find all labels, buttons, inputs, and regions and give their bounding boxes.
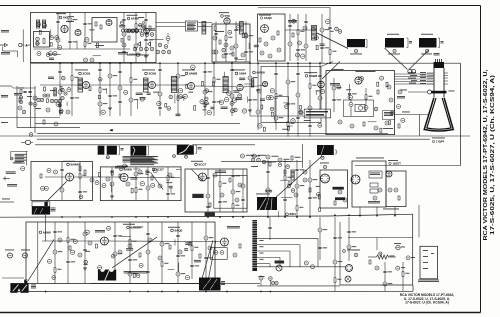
svg-text:3CB6: 3CB6 bbox=[83, 72, 91, 76]
capacitor C164 bbox=[208, 246, 212, 250]
resistor R142 bbox=[309, 188, 311, 192]
wire: antenna lead bbox=[28, 44, 31, 46]
label: value text a208 bbox=[140, 97, 146, 99]
capacitor C162 bbox=[188, 242, 192, 246]
svg-text:1B3GT: 1B3GT bbox=[393, 162, 402, 166]
wire: IF drop 3 bbox=[98, 63, 107, 116]
capacitor C106 bbox=[168, 173, 172, 177]
component: vert output transformer photo bbox=[32, 202, 50, 215]
component: interstage transformer loops B bbox=[132, 29, 142, 32]
tube V2 mixer bbox=[75, 30, 81, 36]
wire: pow drop 2 bbox=[402, 262, 409, 292]
capacitor iC955 bbox=[292, 19, 296, 23]
wire: sync drop 3 bbox=[110, 167, 114, 200]
label: 1st pix IF stage bbox=[75, 70, 91, 76]
wire: IF drop 16 bbox=[296, 63, 300, 136]
svg-text:6AW8: 6AW8 bbox=[189, 72, 198, 76]
capacitor C62s bbox=[61, 96, 64, 99]
capacitor C176 bbox=[269, 277, 273, 286]
label: value text a212 bbox=[210, 107, 214, 109]
box: video amp sub-box bbox=[275, 97, 289, 123]
wire: flyback lead 1 bbox=[202, 240, 213, 278]
box: horiz output cage bbox=[352, 161, 386, 207]
label: value text c409 bbox=[119, 25, 125, 27]
wire: kine grid long wire bbox=[395, 112, 428, 115]
resistor R151 bbox=[69, 246, 71, 250]
capacitor bC301 bbox=[270, 89, 274, 93]
capacitor C63b bbox=[10, 157, 13, 160]
label: note paragraph left bbox=[14, 154, 26, 164]
label: SYNC SEP stage bbox=[63, 161, 82, 167]
capacitor cC400 bbox=[58, 46, 62, 50]
capacitor C74 bbox=[389, 98, 393, 102]
wire: sync path bbox=[45, 176, 180, 179]
label: block2 bracket bbox=[118, 146, 123, 155]
component: PCB photo block 3 bbox=[131, 146, 147, 156]
component: height control bbox=[5, 250, 14, 259]
component: deflection yoke photo block L1 bbox=[385, 38, 404, 48]
resistor fR709 bbox=[212, 82, 214, 86]
label: value text i951 bbox=[320, 44, 325, 46]
label: value text e616 bbox=[126, 248, 133, 250]
label: hor section labels bbox=[251, 156, 291, 167]
capacitor C62c bbox=[19, 96, 22, 99]
box: HV rectifier cage bbox=[386, 171, 406, 207]
tube V19 AGC keyer bbox=[355, 77, 362, 84]
resistor R27 bbox=[219, 40, 221, 44]
component: tuner coil 2 bbox=[43, 20, 46, 28]
capacitor fC705 bbox=[191, 65, 195, 69]
component: IF coil L5 bbox=[171, 77, 177, 93]
component: horiz hold transformer bbox=[355, 105, 365, 112]
wire: tuner internal bus bbox=[34, 48, 131, 50]
wire: segment c420 bbox=[129, 53, 141, 55]
capacitor aC231 bbox=[157, 101, 161, 105]
label: value text b308 bbox=[316, 89, 320, 92]
label: block4 designator bbox=[173, 155, 188, 159]
label: agc labels bbox=[14, 93, 22, 95]
label: T2 designator bbox=[350, 49, 362, 54]
wire: lower bus 2 bbox=[10, 290, 413, 292]
resistor fR710 bbox=[186, 84, 188, 88]
wire: connector lead 3 bbox=[257, 251, 290, 267]
wire: mid right drop 2 bbox=[283, 160, 291, 217]
resistor dR515 bbox=[131, 188, 133, 193]
resistor R33 bbox=[232, 52, 234, 56]
capacitor C48 bbox=[296, 53, 300, 57]
component: speaker photo block bbox=[10, 283, 28, 293]
capacitor jC1004 bbox=[348, 95, 352, 99]
svg-text:6CG7: 6CG7 bbox=[199, 163, 207, 167]
resistor bR319 bbox=[287, 127, 289, 131]
resistor R160 bbox=[169, 245, 171, 249]
wire: tuner left vline bbox=[30, 63, 32, 128]
wire: vert drop 7 bbox=[160, 222, 169, 284]
label: value text e612 bbox=[184, 248, 188, 250]
capacitor bC320 bbox=[320, 89, 324, 93]
label: 2nd pix IF stage bbox=[142, 70, 157, 76]
tube V9 1st pix IF bbox=[83, 82, 90, 89]
component: standalone cap bbox=[166, 33, 170, 44]
wire: sub vline x377 bbox=[376, 238, 378, 251]
wire: segment a222 bbox=[137, 99, 139, 109]
capacitor gC811 bbox=[124, 90, 128, 94]
component: delay line bbox=[251, 79, 254, 87]
capacitor bC312 bbox=[299, 110, 303, 114]
capacitor C180 bbox=[406, 256, 415, 260]
text: right margin title line 2 bbox=[490, 75, 496, 235]
tube V5 sound output 6AQ5 bbox=[261, 25, 269, 33]
wire: B+ feed above sound box bbox=[258, 7, 331, 9]
resistor R5 bbox=[95, 22, 97, 26]
resistor iR957 bbox=[316, 45, 318, 50]
capacitor dC509 bbox=[123, 164, 127, 168]
capacitor aC224 bbox=[169, 95, 173, 99]
wire: sound drop 4 bbox=[244, 22, 253, 63]
wire: vert signal path bbox=[42, 240, 220, 243]
label: horiz out trans caption bbox=[221, 281, 225, 285]
label: block5 designator bbox=[321, 156, 324, 159]
wire: segment e615 bbox=[168, 269, 175, 271]
label: horiz drive text bbox=[205, 212, 215, 216]
capacitor C12 bbox=[84, 58, 88, 62]
label: symbols note paragraph bbox=[123, 156, 157, 162]
capacitor cC423 bbox=[37, 23, 41, 27]
wire: B+ horiz to HV cage bbox=[355, 165, 461, 167]
wire: hv drop 2 bbox=[376, 207, 378, 218]
capacitor gC804 bbox=[67, 88, 71, 92]
capacitor C190 bbox=[266, 155, 279, 159]
capacitor jC1002 bbox=[380, 76, 384, 80]
wire: vert drop 10 bbox=[204, 222, 213, 279]
capacitor C62m bbox=[46, 94, 49, 97]
component: CRT V8 picture tube flare bbox=[424, 98, 453, 131]
label: left margin text a bbox=[1, 30, 9, 32]
wire: segment h904 bbox=[248, 43, 250, 49]
capacitor C62r bbox=[64, 92, 67, 95]
label: value text e607 bbox=[185, 242, 192, 244]
component: output transformer T1 bbox=[312, 26, 317, 41]
component: fuse F3 bbox=[370, 189, 378, 193]
wire: stub to tuner 2 bbox=[0, 117, 60, 119]
label: speaker caption bbox=[31, 285, 36, 289]
wire: power top wire bbox=[348, 237, 413, 239]
wire: IF mid hline bbox=[35, 123, 240, 125]
capacitor C47 bbox=[298, 41, 302, 45]
node: arrow symbol left bbox=[3, 177, 10, 181]
wire: segment d513 bbox=[133, 168, 140, 170]
capacitor aC213 bbox=[204, 101, 208, 105]
capacitor C156 bbox=[128, 244, 132, 248]
label: value text c411 bbox=[68, 15, 74, 18]
wire: sound out drop 1 bbox=[288, 14, 292, 61]
label: VERT OUT stage bbox=[168, 227, 183, 233]
capacitor C29 bbox=[230, 46, 234, 50]
capacitor hC907 bbox=[236, 26, 240, 30]
capacitor cC408 bbox=[120, 21, 124, 25]
capacitor C72 bbox=[387, 85, 391, 89]
wire: speaker top wire bbox=[2, 277, 24, 279]
label: value text d501 bbox=[130, 177, 137, 179]
wire: video box corner diag bbox=[321, 62, 333, 67]
wire: segment h901 bbox=[237, 58, 245, 60]
label: value text c424 bbox=[148, 28, 155, 30]
resistor kR1053 bbox=[318, 195, 320, 199]
label: value text i953 bbox=[330, 30, 334, 33]
wire: lower bus 1 bbox=[90, 283, 260, 285]
wire: tuner drop 2 bbox=[68, 13, 77, 50]
label: value text a221 bbox=[136, 93, 143, 95]
capacitor aC225 bbox=[242, 109, 246, 113]
capacitor C80 bbox=[398, 90, 402, 94]
wire: agc chain 2 bbox=[349, 100, 353, 116]
capacitor C152 bbox=[78, 253, 82, 257]
label: PICTURE TUBE 17QP4 bbox=[432, 138, 445, 144]
resistor R145 bbox=[284, 170, 286, 174]
capacitor C62f bbox=[23, 91, 26, 92]
capacitor C150 bbox=[58, 238, 62, 242]
capacitor iC956 bbox=[314, 36, 318, 40]
wire: antenna lead path bbox=[3, 47, 18, 58]
wire: IF drop 5 bbox=[118, 63, 122, 116]
box: fine tuning subassembly bbox=[34, 32, 50, 48]
wire: segment j1003 bbox=[368, 121, 377, 123]
resistor gR810 bbox=[89, 87, 91, 91]
wire: CRT grid wire 1 bbox=[395, 72, 433, 74]
wire: vert drop 2 bbox=[66, 222, 75, 284]
capacitor C113 bbox=[235, 198, 239, 202]
capacitor aC229 bbox=[200, 100, 204, 104]
capacitor C23 bbox=[133, 47, 137, 51]
wire: IF strip top bus bbox=[31, 62, 461, 64]
tube V13 video amplifier bbox=[263, 81, 268, 86]
capacitor C90 bbox=[47, 169, 51, 173]
wire: speaker diagonal bbox=[28, 240, 54, 282]
label: vert section labels bbox=[95, 230, 105, 232]
label: left margin text d bbox=[1, 121, 8, 124]
wire: vert drop 8 bbox=[176, 222, 185, 284]
box: horiz output tube section bbox=[320, 170, 348, 208]
wire: CRT grid wire 3 bbox=[395, 78, 433, 79]
label: left margin text b bbox=[1, 52, 10, 54]
tube V14 sync separator bbox=[66, 173, 74, 181]
capacitor C26b bbox=[156, 50, 160, 54]
capacitor cC405 bbox=[85, 38, 89, 42]
wire: tuner drop 3 bbox=[83, 13, 92, 50]
capacitor C46 bbox=[277, 48, 281, 52]
capacitor C140 bbox=[303, 170, 307, 174]
box: keyed AGC and horizontal AFC bbox=[326, 71, 395, 135]
capacitor gC812 bbox=[62, 76, 66, 80]
resistor R92 bbox=[40, 174, 42, 178]
capacitor C173 bbox=[375, 266, 379, 270]
capacitor C148g bbox=[291, 189, 295, 193]
capacitor C153 bbox=[88, 241, 92, 245]
label: noise inv labels bbox=[330, 83, 340, 85]
capacitor C165 bbox=[233, 253, 237, 257]
label: horizontal control text block bbox=[383, 111, 395, 120]
capacitor kC1055 bbox=[286, 165, 290, 169]
label: value text j1000 bbox=[346, 88, 351, 91]
tube V11 3rd pix IF bbox=[188, 83, 195, 90]
capacitor bC306 bbox=[270, 107, 274, 111]
capacitor C69b bbox=[59, 110, 63, 114]
capacitor aC200 bbox=[205, 89, 209, 93]
capacitor gC806 bbox=[99, 78, 103, 82]
resistor R114 bbox=[209, 203, 211, 207]
resistor R111 bbox=[229, 178, 231, 182]
svg-text:17-S-6025, U, 17-S-6027, U (Ch: 17-S-6025, U, 17-S-6027, U (Ch. KCS94, A… bbox=[490, 75, 496, 235]
wire: agc chain 3 bbox=[364, 88, 372, 112]
capacitor bC303 bbox=[257, 89, 261, 93]
label: AC interlock caption bbox=[418, 280, 439, 282]
wire: phase det diagonal bbox=[151, 172, 164, 189]
wire: segment g801 bbox=[106, 88, 108, 93]
label: bracket for L1 bbox=[407, 38, 413, 48]
label: value text b304 bbox=[260, 99, 265, 101]
box: video amp section bbox=[261, 66, 321, 122]
component: on-off switch bbox=[352, 250, 360, 257]
label: block2 designator bbox=[106, 156, 109, 159]
resistor cR402 bbox=[36, 42, 38, 46]
capacitor iC950 bbox=[326, 19, 330, 23]
wire: segment c410 bbox=[93, 55, 101, 57]
capacitor hC902 bbox=[222, 48, 226, 52]
label: value text b316 bbox=[304, 119, 311, 122]
label: vert osc designator bbox=[39, 230, 51, 234]
wire: flyback lead 2 bbox=[209, 241, 216, 279]
label: value text e608 bbox=[85, 250, 90, 253]
wire: CRT grid leads bbox=[420, 72, 448, 84]
capacitor C62h bbox=[37, 98, 40, 101]
wire: CRT grid wire 5 bbox=[395, 83, 433, 84]
capacitor C62q bbox=[61, 88, 64, 91]
wire: segment f708 bbox=[223, 72, 225, 77]
capacitor dC500 bbox=[79, 195, 83, 199]
resistor R6 bbox=[100, 25, 102, 29]
capacitor C63 bbox=[18, 106, 22, 110]
label: value text f707 bbox=[239, 78, 245, 80]
svg-text:17QP4: 17QP4 bbox=[436, 140, 445, 144]
resistor jR1010 bbox=[386, 82, 388, 87]
capacitor eC622 bbox=[85, 230, 89, 234]
component: interstage transformer loops A bbox=[121, 29, 131, 32]
resistor R154 bbox=[95, 244, 97, 248]
wire: segment c415 bbox=[50, 30, 52, 39]
wire: segment k1052 bbox=[280, 179, 289, 181]
capacitor C62e bbox=[22, 110, 26, 114]
capacitor C15 bbox=[122, 43, 126, 47]
wire: IF hline 116 ext bbox=[250, 115, 326, 117]
capacitor C62g bbox=[28, 91, 31, 92]
capacitor C178 bbox=[275, 281, 278, 284]
component: brightness control bbox=[252, 154, 266, 158]
capacitor aC210 bbox=[231, 109, 235, 113]
wire: kine feed line bbox=[257, 266, 346, 268]
capacitor C10 bbox=[49, 52, 53, 56]
capacitor C62i bbox=[40, 98, 43, 101]
label: value text d505 bbox=[169, 186, 173, 188]
label: hv labels bbox=[368, 201, 380, 203]
label: crt area labels bbox=[397, 96, 405, 98]
component: PCB photo block 2 bbox=[98, 146, 117, 155]
capacitor dC507 bbox=[140, 182, 144, 186]
svg-text:3CB6: 3CB6 bbox=[149, 72, 157, 76]
tube V17 vertical oscillator bbox=[100, 237, 108, 245]
label: above B2 bbox=[387, 33, 399, 36]
capacitor bC302 bbox=[269, 96, 273, 100]
capacitor eC621 bbox=[98, 266, 102, 270]
wire: sound drop 2 bbox=[224, 24, 233, 62]
label: dim arrows right of block bbox=[51, 208, 56, 212]
capacitor C170 bbox=[304, 261, 308, 265]
component: fuse F2 bbox=[370, 183, 378, 187]
wire: mid right drop 4 bbox=[308, 160, 317, 217]
resistor R65 bbox=[59, 103, 61, 107]
component: ratio det transformer bbox=[240, 22, 244, 35]
wire: IF drop 15 bbox=[286, 63, 295, 136]
capacitor aC230 bbox=[234, 108, 238, 112]
svg-text:6AQ5: 6AQ5 bbox=[264, 16, 272, 20]
label: text near neck top bbox=[434, 53, 440, 55]
capacitor C148d bbox=[262, 160, 266, 164]
wire: agc chain 4 bbox=[332, 78, 341, 112]
capacitor C31 bbox=[212, 50, 216, 54]
box: sound det section bbox=[212, 24, 250, 62]
component: deflection rect D1 bbox=[369, 171, 382, 178]
resistor R104 bbox=[151, 176, 153, 180]
wire: vert drop 6 bbox=[146, 222, 150, 284]
wire: hosc drop 2 bbox=[218, 169, 227, 212]
capacitor C49b bbox=[335, 27, 339, 31]
label: SYNC AMP stage bbox=[117, 166, 132, 172]
capacitor C62n bbox=[50, 99, 53, 102]
wire: segment g813 bbox=[66, 102, 68, 106]
capacitor C130 bbox=[373, 196, 377, 200]
component: width coil photo block L2 bbox=[419, 38, 437, 48]
resistor R67 bbox=[43, 120, 45, 124]
wire: vert drop 3 bbox=[83, 222, 87, 284]
capacitor fC702 bbox=[227, 91, 231, 95]
component: PCB photo block 4 bbox=[177, 145, 194, 155]
label: value text c422 bbox=[89, 28, 94, 31]
wire: sound drop 3 bbox=[234, 22, 238, 63]
capacitor C62j bbox=[29, 102, 32, 105]
capacitor C13 bbox=[90, 58, 94, 62]
wire: yoke diagonal lead bbox=[274, 157, 322, 200]
capacitor C115 bbox=[238, 183, 242, 187]
capacitor C30b bbox=[164, 45, 168, 49]
box: vertical oscillator section bbox=[26, 222, 215, 284]
label: above B3 bbox=[421, 33, 433, 36]
wire: sound out to transformer bbox=[285, 29, 312, 31]
capacitor C22 bbox=[150, 33, 154, 37]
component: horiz output transformer photo bbox=[199, 278, 221, 291]
wire: segment d508 bbox=[170, 188, 172, 193]
capacitor cC404 bbox=[136, 53, 140, 57]
resistor hR906 bbox=[214, 26, 216, 31]
label: 6W4GT designator bbox=[286, 212, 296, 216]
label: block4 bracket bbox=[195, 146, 201, 154]
capacitor C82 bbox=[401, 118, 405, 122]
wire: IF drop 2 bbox=[70, 63, 79, 116]
resistor R62 bbox=[19, 98, 21, 102]
component: IF coil L3 bbox=[78, 78, 83, 92]
capacitor bC310 bbox=[285, 105, 289, 109]
label: to second anode text bbox=[333, 187, 344, 190]
capacitor C91 bbox=[53, 170, 57, 174]
component: contrast control bbox=[240, 154, 254, 158]
